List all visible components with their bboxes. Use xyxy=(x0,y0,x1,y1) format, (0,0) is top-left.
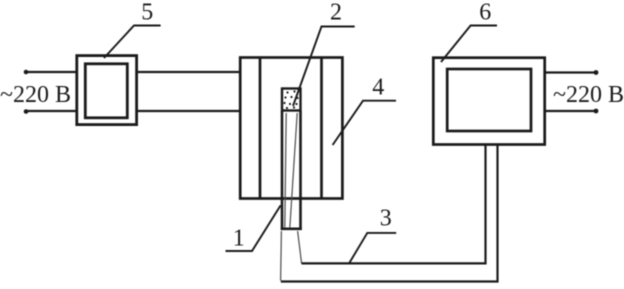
svg-text:5: 5 xyxy=(141,0,153,26)
svg-text:3: 3 xyxy=(380,206,392,232)
svg-text:2: 2 xyxy=(330,0,342,26)
svg-text:6: 6 xyxy=(479,0,491,26)
svg-text:4: 4 xyxy=(372,75,384,101)
svg-text:~220 В: ~220 В xyxy=(553,82,624,108)
svg-text:~220 В: ~220 В xyxy=(0,82,71,108)
svg-text:1: 1 xyxy=(233,226,245,252)
